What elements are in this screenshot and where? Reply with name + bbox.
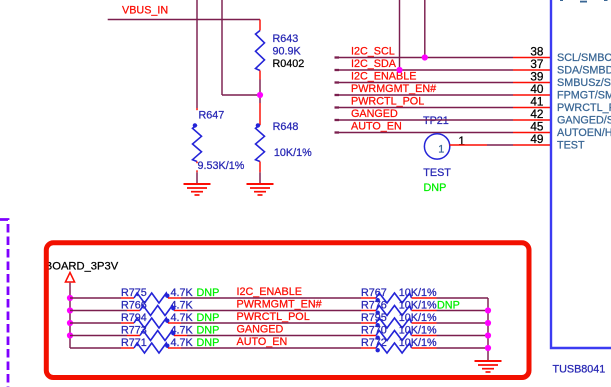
svg-text:I2C_SCL: I2C_SCL	[351, 46, 395, 58]
wire GANGED middle	[187, 335, 361, 337]
resistor R643 pin 1	[259, 20, 261, 31]
wire I2C_ENABLE middle	[181, 297, 361, 299]
resistor R766 pin 1	[127, 310, 140, 312]
ground for R648	[247, 183, 274, 185]
junction bus row 3	[67, 320, 73, 326]
ground for pulldown network	[475, 360, 502, 362]
svg-text:9.53K/1%: 9.53K/1%	[198, 160, 245, 172]
wire AUTO_EN to right bus	[437, 347, 489, 349]
wire net PWRCTL_POL	[335, 106, 340, 108]
wire right bus vertical	[487, 298, 489, 361]
wire AUTO_EN middle	[181, 347, 361, 349]
svg-text:I2C_SDA: I2C_SDA	[351, 58, 397, 70]
resistor R773 pin1 dot	[171, 331, 175, 335]
resistor R775 pin 2	[168, 297, 181, 299]
wire PWRCTL_POL to right bus	[437, 322, 489, 324]
resistor R767 body	[376, 293, 412, 303]
resistor R795 pin 2	[412, 322, 437, 324]
svg-text:PWRCTL_POL: PWRCTL_POL	[237, 311, 310, 323]
resistor R771 pin 1	[121, 347, 134, 349]
resistor R648 pin 2	[259, 162, 261, 171]
junction bus row 1	[67, 295, 73, 301]
wire bus to R766	[70, 310, 127, 312]
svg-text:1: 1	[438, 143, 444, 155]
wire bus to R773	[70, 335, 127, 337]
wire net I2C_ENABLE	[335, 81, 340, 83]
resistor R776 pin 2	[412, 310, 437, 312]
resistor R648 body	[256, 125, 265, 162]
resistor R767 pin1 dot	[376, 298, 380, 302]
junction bus row 4	[67, 332, 73, 338]
svg-text:90.9K: 90.9K	[273, 46, 302, 58]
pin 42 of U TUSB8041	[513, 119, 551, 121]
svg-text:TUSB8041: TUSB8041	[553, 364, 606, 376]
wire vertical to I2C_SCL	[424, 0, 426, 58]
page border dashed	[0, 220, 8, 387]
svg-text:10K/1%: 10K/1%	[399, 287, 437, 299]
text remnant top right	[560, 0, 563, 1]
resistor R767 pin 2	[412, 297, 437, 299]
resistor R770 pin 2	[412, 335, 437, 337]
wire R643 to node	[259, 80, 261, 104]
resistor R770 pin 1	[361, 335, 376, 337]
wire R648 to ground	[259, 170, 261, 172]
svg-text:TP21: TP21	[423, 115, 449, 127]
svg-text:DNP: DNP	[197, 325, 220, 337]
svg-text:R648: R648	[273, 121, 299, 133]
svg-text:SCL/SMBCL: SCL/SMBCL	[557, 52, 611, 64]
wire horizontal branch to R643/R648 node	[222, 94, 260, 96]
svg-text:AUTOEN/HS: AUTOEN/HS	[557, 127, 611, 139]
svg-text:I2C_ENABLE: I2C_ENABLE	[237, 286, 302, 298]
resistor R766 pin1 dot	[171, 306, 175, 310]
svg-text:DNP: DNP	[197, 337, 220, 349]
wire net I2C_SDA	[335, 69, 340, 71]
svg-text:GANGED/SM: GANGED/SM	[557, 115, 611, 127]
resistor R770 body	[376, 331, 412, 341]
wire PWRCTL_POL middle	[181, 322, 361, 324]
svg-text:R0402: R0402	[273, 58, 305, 70]
wire VBUS_IN horizontal	[108, 19, 260, 21]
wire PWRMGMT_EN# middle	[187, 310, 361, 312]
svg-text:4.7K: 4.7K	[171, 287, 194, 299]
test point TP21 circle	[424, 134, 449, 159]
svg-text:GANGED: GANGED	[237, 324, 284, 336]
svg-text:PWRCTL_P: PWRCTL_P	[557, 102, 611, 114]
svg-text:TEST: TEST	[423, 167, 451, 179]
resistor R647 body	[193, 125, 202, 162]
resistor R643 pin 2	[259, 71, 261, 80]
svg-text:R647: R647	[199, 109, 225, 121]
resistor R794 pin 2	[168, 322, 181, 324]
resistor R766 pin 2	[174, 310, 187, 312]
svg-text:1: 1	[458, 134, 465, 148]
wire R647 to ground	[196, 170, 198, 172]
svg-text:PWRCTL_POL: PWRCTL_POL	[351, 96, 424, 108]
svg-text:10K/1%: 10K/1%	[274, 147, 312, 159]
svg-text:10K/1%: 10K/1%	[399, 300, 437, 312]
resistor R794 body	[134, 318, 168, 328]
resistor R766 body	[140, 306, 174, 316]
junction right bus row 4	[485, 332, 491, 338]
resistor R775 pin1 dot	[165, 294, 169, 298]
power symbol BOARD_3P3V	[65, 273, 74, 283]
pin 39 of U TUSB8041	[513, 82, 551, 84]
resistor R795 pin 1	[361, 322, 376, 324]
ground for R647	[184, 183, 211, 185]
resistor R772 body	[376, 343, 412, 353]
wire vertical to I2C_SDA	[399, 0, 401, 70]
resistor R794 pin 1	[121, 322, 134, 324]
wire bus to R794	[70, 322, 121, 324]
svg-text:10K/1%: 10K/1%	[399, 337, 437, 349]
svg-text:GANGED: GANGED	[351, 108, 398, 120]
resistor R794 pin1 dot	[165, 319, 169, 323]
resistor R648 pin1 dot	[256, 123, 260, 127]
pin 38 of U TUSB8041	[513, 57, 551, 59]
resistor R776 pin1 dot	[376, 311, 380, 315]
svg-text:R643: R643	[273, 33, 299, 45]
svg-text:SMBUSz/SM: SMBUSz/SM	[557, 77, 611, 89]
svg-text:BOARD_3P3V: BOARD_3P3V	[45, 261, 119, 273]
resistor R770 pin1 dot	[376, 336, 380, 340]
svg-text:PWRMGMT_EN#: PWRMGMT_EN#	[351, 83, 436, 95]
resistor R795 pin1 dot	[376, 323, 380, 327]
svg-text:VBUS_IN: VBUS_IN	[122, 5, 168, 17]
resistor R776 body	[376, 306, 412, 316]
pin 37 of U TUSB8041	[513, 69, 551, 71]
junction on I2C_SCL	[422, 54, 428, 60]
resistor R648 pin 1	[259, 103, 261, 125]
wire I2C_ENABLE to right bus	[437, 297, 489, 299]
junction right bus row 3	[485, 320, 491, 326]
pin 40 of U TUSB8041	[513, 94, 551, 96]
pin 41 of U TUSB8041	[513, 107, 551, 109]
svg-text:4.7K: 4.7K	[171, 337, 194, 349]
resistor R771 pin 2	[168, 347, 181, 349]
wire TP21 to pin 49	[487, 144, 513, 146]
svg-text:PWRMGMT_EN#: PWRMGMT_EN#	[237, 299, 322, 311]
resistor R772 pin1 dot	[376, 348, 380, 352]
wire PWRMGMT_EN# to right bus	[437, 310, 489, 312]
wire net GANGED	[335, 119, 340, 121]
svg-text:4.7K: 4.7K	[171, 312, 194, 324]
resistor R795 body	[376, 318, 412, 328]
svg-text:AUTO_EN: AUTO_EN	[237, 336, 288, 348]
resistor R773 body	[140, 331, 174, 341]
junction on I2C_SDA	[396, 67, 402, 73]
resistor R647 pin1 dot	[193, 123, 197, 127]
junction right bus row 5	[485, 345, 491, 351]
highlight box	[46, 243, 529, 378]
resistor R771 pin1 dot	[165, 344, 169, 348]
resistor R775 body	[134, 293, 168, 303]
wire vertical branch	[221, 0, 223, 95]
svg-text:10K/1%: 10K/1%	[399, 325, 437, 337]
svg-text:DNP: DNP	[197, 287, 220, 299]
resistor R772 pin 2	[412, 347, 437, 349]
resistor R647 labels	[196, 110, 225, 124]
pin 45 of U TUSB8041	[513, 132, 551, 134]
svg-text:DNP: DNP	[437, 300, 460, 312]
resistor R643 body	[256, 31, 265, 71]
resistor R772 pin 1	[361, 347, 376, 349]
wire bus to R771	[70, 347, 121, 349]
test point TP21 pin	[450, 144, 488, 146]
svg-text:I2C_ENABLE: I2C_ENABLE	[351, 71, 416, 83]
wire net PWRMGMT_EN#	[335, 94, 340, 96]
wire net I2C_SCL	[335, 56, 340, 58]
resistor R773 pin 2	[174, 335, 187, 337]
resistor R647 pin 1	[196, 108, 198, 112]
wire GANGED to right bus	[437, 335, 489, 337]
svg-text:10K/1%: 10K/1%	[399, 312, 437, 324]
wire bus to R775	[70, 297, 121, 299]
resistor R773 pin 1	[127, 335, 140, 337]
svg-text:SDA/SMBDAT: SDA/SMBDAT	[557, 65, 611, 77]
svg-text:FPMGT/SMB: FPMGT/SMB	[557, 90, 611, 102]
junction bus row 2	[67, 307, 73, 313]
resistor R776 pin 1	[361, 310, 376, 312]
junction right bus row 2	[485, 307, 491, 313]
svg-text:TEST: TEST	[557, 140, 585, 152]
wire BOARD_3P3V bus vertical	[69, 283, 71, 348]
wire net AUTO_EN	[335, 131, 340, 133]
svg-text:AUTO_EN: AUTO_EN	[351, 121, 402, 133]
svg-text:DNP: DNP	[424, 182, 447, 194]
junction node R643/R648	[257, 92, 263, 98]
svg-text:DNP: DNP	[197, 312, 220, 324]
wire vertical to R647	[196, 0, 198, 108]
pin 49 of U TUSB8041	[513, 144, 551, 146]
svg-text:49: 49	[530, 132, 543, 146]
resistor R767 pin 1	[361, 297, 376, 299]
U1 TUSB8041 symbol outline	[551, 0, 611, 348]
resistor R775 pin 1	[121, 297, 134, 299]
resistor R771 body	[134, 343, 168, 353]
resistor R647 pin 2	[196, 162, 198, 164]
